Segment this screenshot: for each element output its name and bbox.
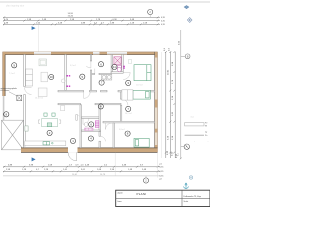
- svg-text:11: 11: [113, 65, 116, 69]
- interior wall H2 across (hall ceiling): [58, 90, 155, 92]
- window top 2: [93, 52, 100, 55]
- column box kitchen wall: [25, 126, 28, 131]
- bottom ticks line1: [3, 166, 159, 168]
- door arc room4b: [101, 136, 106, 141]
- WC vanity pink: [85, 128, 93, 131]
- nightstand bed1: [128, 60, 131, 64]
- svg-text:14,78: 14,78: [100, 174, 106, 176]
- interior wall V6 bed2 left: [120, 92, 121, 99]
- interior wall H3 hall floor: [58, 103, 121, 104]
- svg-text:16,61: 16,61: [72, 174, 78, 176]
- cyan anchor marker: [184, 183, 189, 189]
- door arc bed2: [122, 99, 128, 105]
- svg-text:9,2 m2: 9,2 m2: [70, 65, 76, 67]
- svg-text:10: 10: [50, 75, 54, 79]
- sofa living: [38, 72, 47, 96]
- sheet top edge line: [0, 1, 210, 3]
- axis line right: [180, 30, 182, 159]
- bed 3 (bottom right bedroom): [134, 138, 149, 147]
- exterior top wall: [3, 52, 158, 55]
- exterior bottom wall: [21, 147, 158, 161]
- axis bubble top: [181, 54, 190, 59]
- svg-text:B: B: [187, 54, 189, 58]
- BOTTOM DIMENSIONS: [3, 167, 160, 176]
- RIGHT DIMENSIONS: [162, 52, 176, 158]
- svg-text:16,10 m2: 16,10 m2: [35, 98, 43, 100]
- svg-text:11,9 m2: 11,9 m2: [136, 85, 143, 87]
- bottom right end labels: [160, 164, 165, 181]
- svg-text:plan tegning stue: plan tegning stue: [6, 5, 25, 8]
- svg-text:W: W: [205, 126, 207, 128]
- interior wall V3b laundry lower: [90, 70, 91, 92]
- door arc hall from living: [84, 92, 91, 99]
- svg-text:mur: mur: [191, 117, 195, 119]
- right end dim labels top: [161, 17, 166, 26]
- sideboard hall: [61, 106, 65, 111]
- extension line from plan: [114, 153, 116, 177]
- WC toilet: [85, 122, 88, 126]
- svg-text:PLANI: PLANI: [137, 192, 147, 196]
- dim line minors: [3, 23, 160, 25]
- faint room area labels: [9, 65, 143, 131]
- tick marks top line1: [3, 16, 159, 18]
- WC walls: [82, 105, 101, 148]
- dim line majors: [3, 20, 160, 22]
- dim numbers row2: [4, 19, 135, 21]
- interior wall V3 room5/laundry upper: [90, 55, 91, 62]
- door arc room6: [86, 61, 91, 68]
- bottom ticks line2: [3, 170, 159, 172]
- kitchen sink + hob green: [43, 142, 53, 145]
- door arc storage: [25, 88, 32, 95]
- interior wall H4 bed3 top: [103, 121, 155, 123]
- axis bubble bottom: [177, 144, 189, 159]
- interior wall V5 bath1 right / bed1 left: [122, 55, 123, 73]
- storage column box: [17, 95, 22, 101]
- tick marks top line3: [3, 23, 159, 25]
- interior wall V4 bath1 left: [111, 55, 112, 73]
- entrance door gap: [68, 147, 78, 153]
- svg-text:10,04: 10,04: [168, 69, 170, 75]
- toilet bath1: [117, 66, 121, 72]
- terrace deck: [2, 120, 24, 150]
- outlet symbols wall V2: [67, 75, 71, 87]
- table living: [39, 59, 46, 66]
- interior wall V7 dining/WC: [80, 105, 82, 148]
- svg-text:Falkonerka 75, Kop: Falkonerka 75, Kop: [184, 196, 202, 198]
- TOP DIMENSIONS: [3, 17, 160, 24]
- wardrobe bed2: [122, 90, 133, 100]
- svg-text:ny: ny: [205, 131, 207, 133]
- interior wall H bath1 bottom: [111, 72, 123, 73]
- door arc bed3: [106, 123, 113, 129]
- tick marks top line2: [3, 20, 159, 22]
- window top 3: [107, 52, 127, 55]
- door arc bath1: [123, 73, 130, 80]
- svg-text:objekt: objekt: [117, 192, 123, 195]
- dim line total: [3, 16, 160, 18]
- shower bath1: [114, 57, 121, 65]
- interior wall V2 living/room5: [65, 55, 67, 91]
- interior wall V8 bed3 left: [113, 123, 114, 148]
- interior wall V1 storage/living: [24, 55, 26, 147]
- right dim ticks: [165, 51, 176, 153]
- room labels circled numbers: [4, 62, 131, 144]
- legend bar 1: [185, 123, 204, 126]
- svg-text:16,46: 16,46: [68, 15, 74, 17]
- svg-text:9,8 m2: 9,8 m2: [119, 129, 125, 131]
- grid bubble 2 bottom: [143, 176, 148, 183]
- bottom blue triangle: [32, 157, 36, 161]
- exterior right wall: [155, 52, 158, 152]
- entrance door leaf+arc: [68, 152, 77, 161]
- legend bar 2: [185, 134, 204, 136]
- WC hall door leaf: [76, 115, 78, 121]
- grid bubble 2 top: [148, 9, 153, 17]
- svg-text:t=100mm: t=100mm: [1, 89, 10, 92]
- bed 1 (top right bedroom): [134, 65, 151, 81]
- bottom numbers row2: [6, 169, 147, 171]
- right dim rotated numbers: [164, 40, 181, 158]
- legend texts: [205, 123, 207, 138]
- blue diamond marker 1: [184, 5, 190, 9]
- kitchen counter along bottom: [25, 141, 66, 146]
- blue diamond marker 2: [187, 18, 192, 23]
- svg-text:10,2 m2: 10,2 m2: [125, 113, 132, 115]
- wardrobe living: [26, 69, 33, 86]
- svg-text:Scale: Scale: [184, 201, 189, 203]
- washer pair laundry: [101, 75, 111, 80]
- dim numbers row3: [4, 23, 148, 25]
- svg-text:A: A: [186, 145, 188, 149]
- bottom numbers row1: [8, 165, 144, 167]
- north/entry triangle top: [32, 26, 36, 30]
- TITLE BLOCK: [116, 190, 210, 206]
- svg-text:Pv: Pv: [205, 135, 207, 137]
- window left glass: [2, 96, 4, 120]
- svg-text:Pv: Pv: [205, 123, 207, 125]
- exterior left wall: [3, 52, 6, 120]
- WC sink pink: [95, 121, 99, 128]
- dining table set: [38, 113, 60, 127]
- door arc WC: [83, 118, 89, 124]
- outlet symbol bath1 wall: [124, 66, 125, 69]
- bottom numbers row3: [72, 174, 106, 176]
- svg-text:7,1 m2: 7,1 m2: [9, 73, 15, 75]
- cyan ring marker: [189, 176, 192, 179]
- window top 1: [34, 52, 51, 55]
- bed 2 (middle right bedroom) horizontal: [133, 90, 150, 99]
